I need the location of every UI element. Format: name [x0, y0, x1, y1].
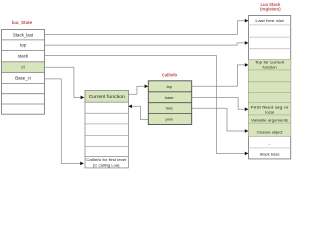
svg-text:...: ...: [268, 141, 271, 146]
svg-text:(C calling Lua): (C calling Lua): [93, 164, 120, 168]
svg-text:Callinfo: Callinfo: [162, 73, 178, 78]
svg-text:Closure object: Closure object: [257, 129, 284, 134]
svg-text:Stack_last: Stack_last: [13, 32, 34, 37]
CallInfo array table (middle): [85, 90, 128, 167]
wire CallInfo base to First fixed arg: [192, 98, 249, 111]
svg-text:lua_State: lua_State: [12, 20, 33, 25]
svg-text:Callinfo for first level: Callinfo for first level: [86, 158, 126, 162]
wire Stack_last to Last free slot: [45, 19, 249, 35]
lua_State table: [2, 30, 45, 115]
wire CallInfo top to Top for current function: [192, 63, 249, 86]
svg-text:ci: ci: [21, 65, 24, 70]
svg-text:base: base: [165, 95, 173, 100]
wire CallInfo prev to previous record: [128, 105, 148, 120]
wire Current function to CallInfo top: [128, 85, 148, 95]
Lua Stack table: [249, 16, 291, 159]
svg-text:Current function: Current function: [89, 94, 126, 99]
wire top to stack row3: [45, 41, 249, 45]
svg-text:local: local: [265, 109, 273, 114]
svg-text:Variable arguments: Variable arguments: [251, 117, 288, 122]
wire stack to Stack base: [45, 56, 249, 156]
svg-text:Last free slot: Last free slot: [255, 18, 284, 23]
svg-text:top: top: [167, 84, 172, 89]
svg-text:prev: prev: [166, 117, 174, 122]
title Callinfo: [162, 73, 178, 78]
svg-text:Base_ci: Base_ci: [15, 75, 31, 80]
wire Base_ci to Callinfo first level: [45, 79, 84, 165]
title lua_State: [12, 20, 33, 25]
svg-text:func: func: [166, 106, 173, 111]
CallInfo struct table: [148, 81, 191, 125]
svg-text:function: function: [263, 64, 277, 69]
wire ci to Current function: [45, 67, 85, 99]
svg-text:Stack base: Stack base: [260, 152, 281, 157]
svg-text:top: top: [20, 43, 27, 48]
svg-text:stack: stack: [18, 53, 29, 58]
wire CallInfo func to Closure object: [192, 108, 249, 133]
title Lua Stack (registers): [260, 2, 281, 12]
svg-text:(registers): (registers): [260, 7, 281, 12]
